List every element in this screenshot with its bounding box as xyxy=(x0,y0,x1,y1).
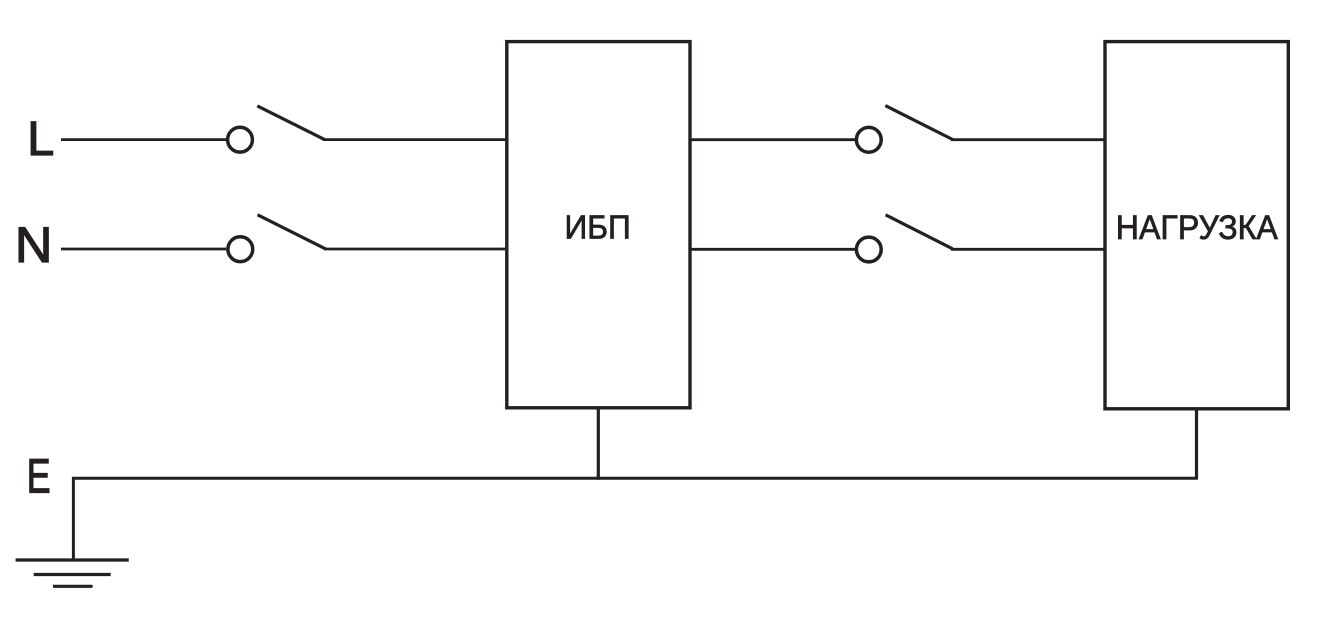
ground symbol bar 1 xyxy=(16,558,129,561)
wire N input xyxy=(61,248,226,251)
svg-text:E: E xyxy=(27,449,51,504)
switch S3 blade (L output) xyxy=(885,106,952,140)
switch S4 circle (N output) xyxy=(856,237,881,262)
ground symbol bar 3 xyxy=(53,585,93,588)
svg-text:L: L xyxy=(27,112,54,166)
wire S4 to load box xyxy=(951,248,1105,251)
UPS box (ИБП) xyxy=(507,42,690,408)
wire UPS ground stem xyxy=(597,408,600,480)
switch S2 circle (N input) xyxy=(228,237,253,262)
wire S1 to UPS box xyxy=(323,138,506,141)
wire UPS to S3 (L output) xyxy=(690,138,855,141)
switch S4 blade (N output) xyxy=(886,215,953,249)
wire L input xyxy=(61,138,226,141)
ground symbol bar 2 xyxy=(34,573,111,576)
svg-text:N: N xyxy=(15,217,53,273)
switch S2 blade (N input) xyxy=(258,215,326,249)
wire load ground stem xyxy=(1195,409,1198,479)
wire S3 to load box xyxy=(951,138,1105,141)
switch S1 circle (L input) xyxy=(228,127,253,152)
load box (НАГРУЗКА) xyxy=(1105,42,1288,409)
svg-text:ИБП: ИБП xyxy=(565,209,631,246)
switch S3 circle (L output) xyxy=(856,127,881,152)
wire E bus xyxy=(73,470,1196,560)
wire S2 to UPS box xyxy=(324,248,505,251)
wire UPS to S4 (N output) xyxy=(690,248,855,251)
switch S1 blade (L input) xyxy=(257,106,324,139)
svg-text:НАГРУЗКА: НАГРУЗКА xyxy=(1116,209,1278,247)
